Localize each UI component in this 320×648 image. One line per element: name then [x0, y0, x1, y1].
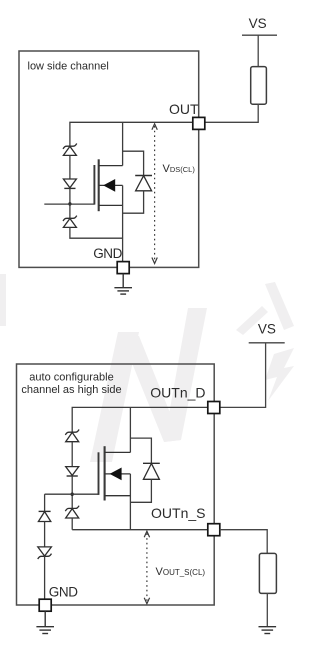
wire gate line (bottom) — [45, 493, 99, 495]
dimension arrow VOUT_S(CL) — [144, 531, 149, 604]
svg-text:GND: GND — [49, 585, 78, 600]
diode D7 (GND chain top) — [38, 511, 50, 521]
wire source drop to OUTn_S rail — [129, 474, 131, 530]
svg-text:channel as high side: channel as high side — [21, 384, 121, 396]
label VDS(CL) — [163, 163, 196, 175]
svg-text:OUT: OUT — [169, 101, 199, 117]
wire OUTn_S to R2 — [220, 530, 267, 554]
wire D4 bottom — [123, 191, 144, 213]
label: low side channel — [28, 61, 109, 73]
wire gate stub (top) — [44, 203, 94, 205]
label VOUT_S(CL) — [156, 566, 206, 578]
svg-text:OUTn_S: OUTn_S — [151, 505, 205, 521]
ground (bottom left) — [36, 611, 54, 633]
transistor Q1 channel bar — [98, 159, 100, 211]
diode D4 (drain-source clamp) — [135, 176, 152, 191]
diode D6 (clamp, bottom circuit) — [143, 463, 160, 479]
pad OUTn_S — [208, 524, 220, 536]
wire drain drop to Q1 — [122, 122, 124, 165]
ground (top) — [114, 274, 132, 295]
label OUT — [169, 101, 199, 117]
watermark logo — [0, 274, 294, 462]
wire D7 to Z8 — [44, 522, 46, 547]
wire source to GND pad — [122, 185, 124, 262]
wire gate node to GND chain — [44, 494, 46, 511]
svg-text:VS: VS — [249, 16, 267, 31]
pad GND (bottom) — [39, 599, 51, 611]
supply bar VS (bottom) — [249, 342, 285, 344]
transistor Q1 drain lead — [99, 165, 123, 167]
wire drain rail (top) — [70, 122, 193, 146]
box: low side channel — [19, 51, 199, 267]
wire branch to D4 top — [123, 151, 144, 175]
wire VS to OUTn_D — [220, 343, 266, 408]
wire Z1 to D2 — [69, 155, 71, 179]
resistor R1 — [251, 67, 267, 105]
transistor Q2 gate bar — [98, 452, 100, 495]
wire R1 to OUT node — [205, 104, 258, 123]
svg-text:OUTn_D: OUTn_D — [150, 385, 205, 401]
wire OUTn_S rail — [72, 529, 208, 531]
zener Z6 (gate chain bottom, bottom circuit) — [65, 506, 79, 518]
label GND (top) — [93, 246, 122, 261]
diode D2 (gate chain middle) — [63, 179, 76, 188]
transistor Q2 body lead with arrow — [105, 468, 131, 481]
supply bar VS (top) — [242, 34, 277, 36]
wire Z8 to GND pad (bottom) — [44, 556, 46, 599]
wire drain drop to Q2 — [129, 407, 131, 452]
transistor Q1 gate bar — [93, 165, 95, 205]
wire R2 to ground — [266, 593, 268, 626]
svg-text:VS: VS — [258, 321, 276, 336]
wire D5 to gate node (bottom) — [71, 476, 73, 508]
pad OUT — [193, 117, 205, 129]
pad OUTn_D — [208, 402, 220, 414]
transistor Q2 drain lead — [105, 451, 131, 453]
wire branch to D6 top — [130, 438, 151, 463]
zener Z8 (GND chain bottom) — [38, 547, 52, 559]
zener Z4 (gate chain top, bottom circuit) — [65, 430, 79, 442]
wire Z4 to D5 — [71, 442, 73, 467]
zener Z1 (gate chain top) — [63, 144, 77, 156]
junction dot gate node (bottom) — [71, 493, 74, 496]
box: auto configurable channel as high side — [17, 364, 215, 605]
svg-text:VDS(CL): VDS(CL) — [163, 163, 196, 175]
wire Z3 to source rail — [70, 227, 123, 238]
dimension arrow VDS(CL) — [152, 124, 157, 264]
net VS (bottom) — [258, 321, 276, 336]
transistor Q2 channel bar — [104, 446, 106, 500]
resistor R2 — [259, 553, 276, 593]
label OUTn_D — [150, 385, 205, 401]
svg-text:auto configurable: auto configurable — [29, 372, 113, 384]
transistor Q1 body lead with arrow — [99, 179, 123, 192]
svg-text:low side channel: low side channel — [28, 61, 109, 73]
net VS (top) — [249, 16, 267, 31]
label GND (bottom) — [49, 585, 78, 600]
svg-text:VOUT_S(CL): VOUT_S(CL) — [156, 566, 206, 578]
transistor Q2 source lead — [105, 495, 131, 497]
zener Z3 (gate chain bottom) — [63, 216, 77, 228]
wire D2 to gate node — [69, 188, 71, 218]
pad GND (top) — [117, 262, 129, 274]
junction dot gate node (top) — [68, 202, 71, 205]
svg-text:GND: GND — [93, 246, 122, 261]
diode D5 (gate chain middle, bottom circuit) — [66, 467, 79, 476]
wire drain rail (bottom) — [72, 407, 208, 432]
wire D6 bottom — [130, 479, 151, 502]
ground (bottom right) — [259, 627, 277, 634]
label OUTn_S — [151, 505, 205, 521]
label: auto configurable channel as high side — [21, 372, 121, 397]
wire VS to R1 — [257, 35, 259, 66]
transistor Q1 source lead — [99, 204, 123, 206]
wire Z6 to OUTn_S rail — [71, 518, 73, 530]
